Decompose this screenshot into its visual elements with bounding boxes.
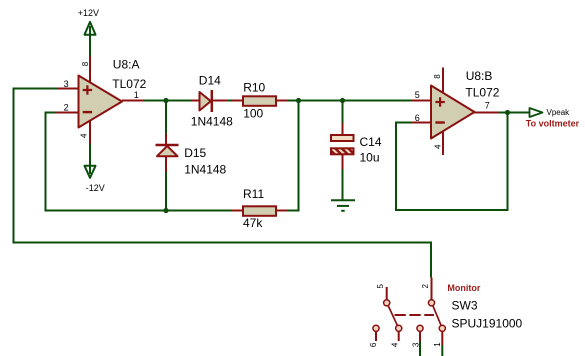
svg-text:6: 6 [369, 342, 378, 347]
svg-text:1N4148: 1N4148 [184, 162, 226, 176]
svg-text:2: 2 [421, 284, 430, 289]
svg-text:R10: R10 [243, 81, 265, 95]
svg-text:4: 4 [433, 144, 442, 149]
svg-text:U8:A: U8:A [113, 58, 140, 72]
svg-text:SPUJ191000: SPUJ191000 [452, 316, 523, 330]
svg-text:1N4148: 1N4148 [191, 115, 233, 129]
svg-text:+12V: +12V [78, 8, 99, 18]
svg-text:U8:B: U8:B [466, 69, 493, 83]
svg-text:8: 8 [81, 61, 90, 66]
svg-text:4: 4 [390, 342, 399, 347]
svg-text:3: 3 [412, 342, 421, 347]
svg-text:2: 2 [64, 103, 69, 113]
svg-text:D14: D14 [199, 74, 221, 88]
svg-text:3: 3 [64, 79, 69, 89]
svg-text:47k: 47k [243, 216, 263, 230]
svg-text:To voltmeter: To voltmeter [526, 119, 580, 129]
svg-text:1: 1 [433, 342, 442, 347]
svg-text:8: 8 [433, 74, 442, 79]
svg-text:Monitor: Monitor [447, 283, 480, 293]
svg-text:-12V: -12V [86, 183, 105, 193]
svg-text:100: 100 [243, 107, 263, 121]
svg-text:1: 1 [134, 90, 139, 100]
svg-text:TL072: TL072 [465, 86, 499, 100]
svg-text:Vpeak: Vpeak [547, 108, 571, 117]
svg-text:10u: 10u [360, 151, 380, 165]
svg-text:TL072: TL072 [112, 77, 146, 91]
svg-text:C14: C14 [360, 135, 382, 149]
svg-text:4: 4 [80, 133, 89, 138]
svg-text:6: 6 [415, 113, 420, 123]
svg-text:R11: R11 [243, 187, 264, 201]
svg-text:SW3: SW3 [452, 299, 478, 313]
svg-text:5: 5 [376, 284, 385, 289]
svg-text:D15: D15 [184, 146, 206, 160]
svg-text:7: 7 [485, 101, 490, 111]
svg-text:5: 5 [415, 90, 420, 100]
